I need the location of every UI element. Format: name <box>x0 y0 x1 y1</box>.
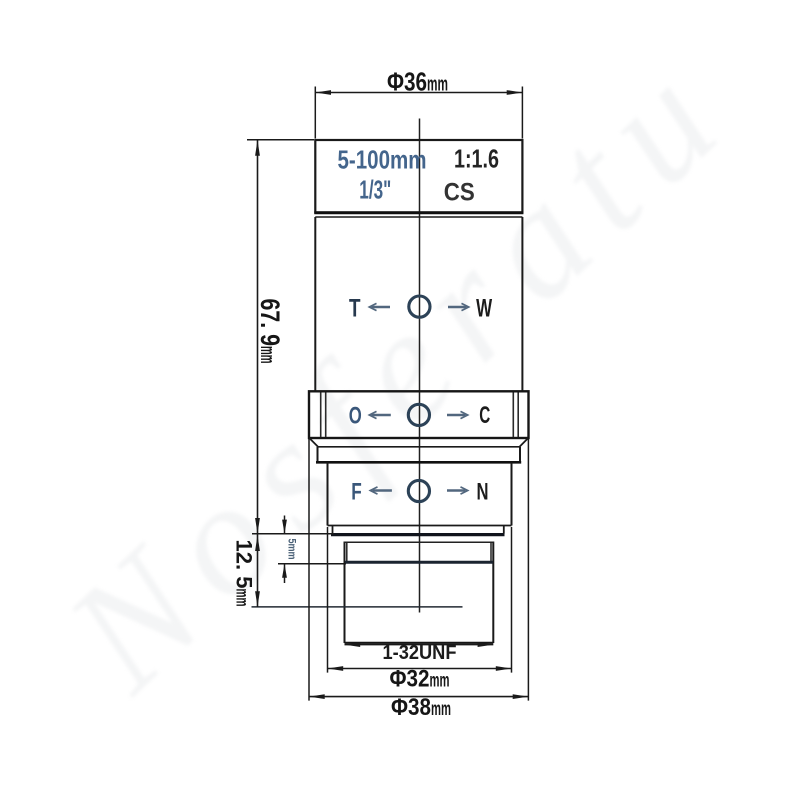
thread relief top line <box>344 541 494 543</box>
iris row: indicator circle <box>408 404 429 425</box>
svg-text:67. 9mm: 67. 9mm <box>255 299 285 364</box>
zoom ring knurl right <box>513 393 518 438</box>
1-32UNF dimension line <box>345 642 494 647</box>
zoom row: indicator circle <box>409 296 430 317</box>
12.5mm text (rotated) <box>232 540 257 607</box>
extension line left of Φ36 <box>314 87 316 139</box>
iris row: right arrow <box>447 411 468 418</box>
5mm text (rotated) <box>286 539 298 560</box>
focus row: indicator circle <box>408 480 429 501</box>
focus ring (Φ32) <box>328 463 512 526</box>
image plane phantom line <box>252 606 463 608</box>
Φ38 extension lines <box>309 439 528 701</box>
svg-text:CS: CS <box>444 179 475 207</box>
zoom row: left arrow <box>369 303 390 310</box>
shared extension line at flange face <box>252 533 334 535</box>
svg-text:1:1.6: 1:1.6 <box>454 144 499 174</box>
centerline <box>419 119 421 613</box>
Φ38 dimension line <box>309 694 528 699</box>
mount step ring <box>333 526 504 534</box>
svg-text:5-100mm: 5-100mm <box>338 145 427 175</box>
svg-text:Φ32mm: Φ32mm <box>390 666 450 693</box>
bevel left under zoom ring <box>310 438 319 447</box>
zoom ring knurl left <box>321 393 326 438</box>
thread relief side lines <box>347 542 491 561</box>
svg-text:C: C <box>479 402 490 429</box>
thread barrel 1-32UNF <box>345 542 494 644</box>
lens label plate <box>314 140 523 213</box>
svg-text:F: F <box>351 479 362 506</box>
main barrel <box>315 217 522 391</box>
dimension Φ36mm text <box>387 67 448 97</box>
67.9mm text (rotated) <box>255 299 285 364</box>
svg-text:T: T <box>349 295 361 323</box>
svg-text:5mm: 5mm <box>286 539 298 560</box>
Φ32 dimension line <box>328 666 512 671</box>
bevel right under zoom ring <box>520 438 529 447</box>
focus row: left arrow <box>370 487 392 494</box>
5mm lower extension line <box>278 563 346 565</box>
svg-text:N: N <box>477 479 489 506</box>
67.9mm top extension line <box>247 139 314 141</box>
mount flange face <box>331 533 505 536</box>
67.9mm dimension line <box>255 140 260 534</box>
svg-text:W: W <box>476 295 492 323</box>
svg-text:Φ38mm: Φ38mm <box>391 694 451 721</box>
Φ32 extension lines <box>328 527 512 673</box>
iris row: left arrow <box>369 411 391 418</box>
dimension Φ36mm line <box>315 90 522 95</box>
svg-text:O: O <box>349 403 362 430</box>
12.5mm dimension line <box>255 534 260 607</box>
svg-text:1-32UNF: 1-32UNF <box>383 642 457 664</box>
5mm dimension <box>282 516 287 584</box>
thread end thick line <box>345 561 493 564</box>
trim flange <box>316 447 521 463</box>
svg-text:12. 5mm: 12. 5mm <box>232 540 257 607</box>
zoom ring (Φ38) <box>309 391 529 438</box>
zoom row: right arrow <box>448 303 469 310</box>
focus row: right arrow <box>447 487 468 494</box>
svg-text:1/3": 1/3" <box>359 175 391 205</box>
extension line right of Φ36 <box>521 87 523 139</box>
